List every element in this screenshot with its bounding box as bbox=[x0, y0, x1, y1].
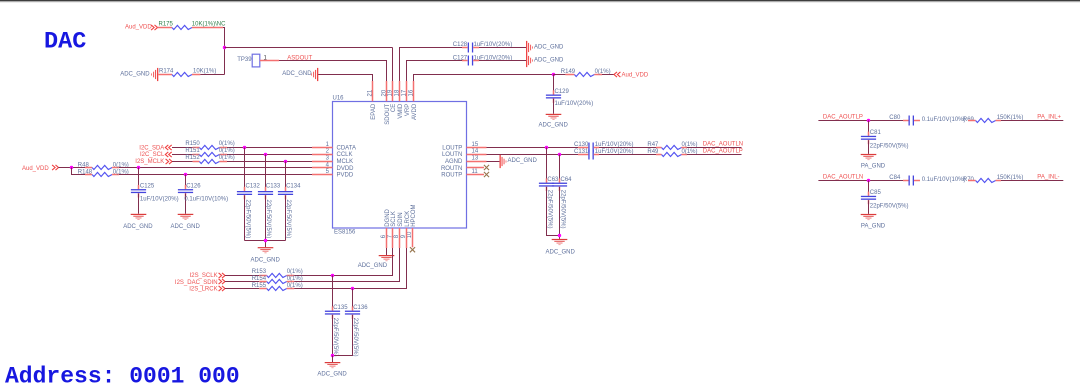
capacitor C80 bbox=[889, 115, 965, 126]
wire pin 6 DGND to ground bbox=[386, 248, 388, 255]
wire R148 to pin 5 bbox=[119, 174, 312, 176]
resistor R49 bbox=[599, 149, 698, 157]
svg-text:C129: C129 bbox=[555, 89, 570, 95]
svg-text:22pF/50V(5%): 22pF/50V(5%) bbox=[546, 190, 552, 229]
wire R48 to pin 4 bbox=[119, 167, 312, 169]
node C135 junction bbox=[331, 274, 334, 277]
ground ADC_GND (C127) bbox=[526, 54, 533, 67]
wire C128 to ground bbox=[479, 47, 526, 49]
svg-text:1uF/10V(20%): 1uF/10V(20%) bbox=[140, 196, 179, 202]
svg-text:R154: R154 bbox=[252, 276, 267, 282]
svg-text:ROUTP: ROUTP bbox=[441, 173, 462, 179]
node AVDD junction bbox=[552, 73, 555, 76]
capacitor C128 bbox=[453, 42, 512, 52]
node C125 junction bbox=[137, 166, 140, 169]
svg-text:C128: C128 bbox=[453, 42, 468, 48]
wire AGND row bbox=[487, 161, 500, 163]
svg-text:C132: C132 bbox=[246, 183, 261, 189]
svg-text:ADC_GND: ADC_GND bbox=[317, 371, 347, 377]
pin names right bbox=[441, 145, 463, 178]
svg-text:0(1%): 0(1%) bbox=[287, 269, 303, 275]
svg-text:22pF/50V(5%): 22pF/50V(5%) bbox=[870, 144, 909, 150]
svg-text:DGND: DGND bbox=[385, 208, 391, 226]
svg-text:22pF/50V(5%): 22pF/50V(5%) bbox=[285, 200, 291, 239]
ground PA_GND (C85) bbox=[861, 214, 877, 220]
svg-text:AVDD: AVDD bbox=[412, 103, 418, 120]
resistor R155 bbox=[225, 283, 303, 290]
svg-text:TP39: TP39 bbox=[237, 57, 252, 63]
svg-text:I2S_SCLK: I2S_SCLK bbox=[190, 273, 218, 279]
node C133 junction bbox=[264, 153, 267, 156]
svg-text:AGND: AGND bbox=[445, 159, 463, 165]
svg-text:R174: R174 bbox=[159, 68, 174, 74]
node C135/C136 join bbox=[331, 354, 334, 357]
node C126 junction bbox=[184, 173, 187, 176]
wire R149 to Aud_VDD bbox=[554, 74, 615, 76]
pin numbers right bbox=[472, 142, 479, 175]
svg-text:ADC_GND: ADC_GND bbox=[358, 263, 388, 269]
svg-text:22pF/50V(5%): 22pF/50V(5%) bbox=[244, 200, 250, 239]
node C63/C64 join bbox=[558, 234, 561, 237]
svg-text:PVDD: PVDD bbox=[337, 173, 354, 179]
wire R154 to pin 8 bbox=[294, 248, 399, 282]
wire C127 to ground bbox=[479, 60, 526, 62]
wire R150 to pin 1 bbox=[227, 147, 312, 149]
node common junction bbox=[264, 239, 267, 242]
svg-text:1uF/10V(20%): 1uF/10V(20%) bbox=[595, 149, 634, 155]
svg-text:CCLK: CCLK bbox=[337, 152, 353, 158]
ground ADC_GND (C132-134) bbox=[258, 247, 274, 253]
svg-text:ADC_GND: ADC_GND bbox=[251, 258, 281, 264]
svg-text:PA_INL-: PA_INL- bbox=[1037, 175, 1059, 181]
capacitor C126 bbox=[178, 175, 228, 214]
svg-text:0(1%): 0(1%) bbox=[219, 155, 235, 161]
ground ADC_GND (DGND) bbox=[379, 255, 395, 261]
wire TP39 pin 1 stub bbox=[260, 60, 279, 62]
pin names left bbox=[337, 145, 356, 178]
svg-text:21: 21 bbox=[368, 89, 374, 96]
svg-text:R152: R152 bbox=[185, 155, 200, 161]
wire to net DAC_AOUTLN bbox=[687, 147, 742, 149]
wire R155 to pin 9 bbox=[294, 248, 406, 289]
pin stubs right bbox=[467, 148, 487, 175]
wire R174 to vertical bbox=[200, 74, 224, 76]
svg-text:U16: U16 bbox=[333, 96, 345, 102]
capacitor C63 bbox=[539, 148, 560, 236]
svg-text:R48: R48 bbox=[78, 162, 90, 168]
wire EPAD ground to pin 21 bbox=[318, 75, 372, 82]
svg-text:Aud_VDD: Aud_VDD bbox=[125, 25, 152, 31]
svg-text:C131: C131 bbox=[574, 149, 589, 155]
ground ADC_GND (AGND) bbox=[500, 155, 507, 168]
no-connect X pin 10 HPCOM bbox=[410, 247, 415, 252]
ground ADC_GND (C63/C64) bbox=[552, 239, 568, 245]
svg-text:C127: C127 bbox=[453, 55, 468, 61]
svg-text:0(1%): 0(1%) bbox=[219, 141, 235, 147]
svg-text:R175: R175 bbox=[159, 21, 174, 27]
capacitor C136 bbox=[333, 289, 369, 357]
wire C132-C134 common bbox=[245, 241, 286, 248]
wire to PA_INL+ bbox=[1001, 120, 1063, 122]
svg-text:R150: R150 bbox=[185, 141, 200, 147]
svg-text:DVDD: DVDD bbox=[337, 166, 355, 172]
svg-text:DAC_AOUTLN: DAC_AOUTLN bbox=[703, 142, 743, 148]
svg-text:0.1uF/10V(10%): 0.1uF/10V(10%) bbox=[184, 196, 228, 202]
svg-text:I2C_SDA: I2C_SDA bbox=[139, 145, 164, 151]
svg-text:VRP: VRP bbox=[405, 104, 411, 116]
svg-text:C80: C80 bbox=[889, 115, 901, 121]
svg-text:0(1%): 0(1%) bbox=[219, 148, 235, 154]
node C85 junction bbox=[867, 179, 870, 182]
capacitor C129 bbox=[546, 75, 593, 114]
svg-text:ADC_GND: ADC_GND bbox=[534, 58, 564, 64]
wire DAC_AOUTLN row bbox=[818, 180, 903, 182]
pin names bottom bbox=[385, 204, 417, 226]
capacitor C125 bbox=[131, 168, 179, 214]
svg-text:VMID: VMID bbox=[398, 103, 404, 119]
svg-text:ADC_GND: ADC_GND bbox=[171, 224, 201, 230]
wire pin 16 AVDD row bbox=[414, 75, 554, 82]
svg-text:DAC_AOUTLN: DAC_AOUTLN bbox=[823, 175, 863, 181]
resistor R48 bbox=[78, 162, 129, 169]
resistor R150 bbox=[172, 141, 235, 149]
svg-text:LOUTP: LOUTP bbox=[442, 145, 462, 151]
ground ADC_GND (C128) bbox=[526, 41, 533, 54]
capacitor C135 bbox=[325, 276, 348, 357]
svg-text:19: 19 bbox=[388, 89, 394, 96]
ground PA_GND (C81) bbox=[861, 154, 877, 160]
wire join to ground bbox=[332, 356, 334, 363]
svg-text:16: 16 bbox=[409, 89, 415, 96]
ground ADC_GND (C125) bbox=[131, 214, 147, 220]
svg-text:CE: CE bbox=[391, 104, 397, 112]
svg-text:22pF/50V(5%): 22pF/50V(5%) bbox=[265, 200, 271, 239]
resistor R47 bbox=[599, 142, 698, 150]
svg-text:C126: C126 bbox=[186, 183, 201, 189]
node Aud_VDD split bbox=[70, 166, 73, 169]
capacitor C131 bbox=[574, 149, 633, 160]
svg-text:22pF/50V(5%): 22pF/50V(5%) bbox=[559, 190, 565, 229]
capacitor C81 bbox=[861, 121, 909, 154]
resistor R153 bbox=[225, 269, 303, 278]
svg-text:R151: R151 bbox=[185, 148, 200, 154]
capacitor C130 bbox=[574, 142, 633, 153]
wire LOUTN row bbox=[487, 154, 579, 156]
pin numbers bottom bbox=[381, 231, 413, 238]
svg-text:22pF/50V(5%): 22pF/50V(5%) bbox=[870, 204, 909, 210]
pin numbers top bbox=[368, 89, 415, 96]
svg-text:C135: C135 bbox=[333, 305, 348, 311]
svg-text:ADC_GND: ADC_GND bbox=[508, 158, 538, 164]
svg-text:10K(1%)\NC: 10K(1%)\NC bbox=[192, 21, 226, 27]
svg-text:SDIN: SDIN bbox=[398, 212, 404, 226]
capacitor C84 bbox=[889, 175, 965, 186]
test point TP39 bbox=[237, 54, 267, 67]
ground ADC_GND (C135/C136) bbox=[325, 362, 341, 368]
node C64 junction bbox=[558, 153, 561, 156]
svg-text:22pF/50V(5%): 22pF/50V(5%) bbox=[332, 318, 338, 357]
capacitor C134 bbox=[278, 162, 301, 241]
svg-text:C63: C63 bbox=[547, 177, 559, 183]
svg-text:22pF/50V(5%): 22pF/50V(5%) bbox=[352, 318, 358, 357]
resistor R152 bbox=[172, 155, 235, 164]
svg-text:LRCK: LRCK bbox=[405, 211, 411, 227]
svg-text:DAC_AOUTLP: DAC_AOUTLP bbox=[703, 148, 743, 154]
svg-text:C136: C136 bbox=[353, 305, 368, 311]
capacitor C64 bbox=[552, 155, 572, 239]
pin stubs left bbox=[312, 148, 333, 175]
ground ADC_GND (C129) bbox=[546, 114, 562, 120]
resistor R69 bbox=[963, 115, 1023, 123]
wire R151 to pin 2 bbox=[227, 154, 312, 156]
svg-text:HPCOM: HPCOM bbox=[411, 204, 417, 226]
svg-text:0.1uF/10V(10%): 0.1uF/10V(10%) bbox=[922, 117, 966, 123]
no-connect X pin 11 ROUTP bbox=[484, 172, 489, 177]
svg-text:CDATA: CDATA bbox=[337, 145, 356, 151]
top border bar bbox=[0, 0, 1080, 1]
svg-text:PA_GND: PA_GND bbox=[861, 223, 886, 229]
resistor R175 bbox=[158, 21, 227, 29]
ground ADC_GND (C126) bbox=[178, 214, 194, 220]
resistor R149 bbox=[561, 69, 611, 77]
wire ASDOUT to pin 20 bbox=[279, 61, 387, 82]
node C63 junction bbox=[545, 146, 548, 149]
pin stubs top bbox=[373, 81, 414, 101]
svg-text:C64: C64 bbox=[561, 177, 573, 183]
capacitor C85 bbox=[861, 181, 909, 214]
wire pin 18 to C128 bbox=[400, 48, 463, 82]
svg-text:ADC_GND: ADC_GND bbox=[282, 71, 312, 77]
svg-text:18: 18 bbox=[395, 89, 401, 96]
svg-text:1uF/10V(20%): 1uF/10V(20%) bbox=[555, 101, 594, 107]
svg-text:13: 13 bbox=[472, 156, 479, 162]
wire R175 to corner and down bbox=[223, 28, 225, 75]
svg-text:C84: C84 bbox=[889, 175, 901, 181]
chip U16 ES8156 bbox=[333, 96, 467, 236]
svg-text:I2S_MCLK: I2S_MCLK bbox=[135, 159, 164, 165]
svg-text:I2C_SCL: I2C_SCL bbox=[140, 152, 165, 158]
svg-text:EPAD: EPAD bbox=[371, 103, 377, 120]
pin numbers left bbox=[326, 142, 330, 175]
node C136 junction bbox=[351, 287, 354, 290]
svg-text:PA_INL+: PA_INL+ bbox=[1037, 115, 1061, 121]
svg-text:ES8156: ES8156 bbox=[334, 230, 356, 236]
svg-text:C134: C134 bbox=[286, 183, 301, 189]
svg-text:R49: R49 bbox=[647, 149, 659, 155]
wire to net DAC_AOUTLP bbox=[687, 154, 742, 156]
capacitor C132 bbox=[237, 148, 261, 241]
svg-text:ADC_GND: ADC_GND bbox=[546, 250, 576, 256]
wire to PA_INL- bbox=[1001, 180, 1063, 182]
svg-text:0.1uF/10V(10%): 0.1uF/10V(10%) bbox=[922, 177, 966, 183]
svg-text:MCLK: MCLK bbox=[337, 159, 354, 165]
wire junction to pin19 CE bbox=[225, 47, 393, 49]
pin stubs bottom bbox=[387, 228, 413, 248]
pin names top bbox=[371, 103, 418, 125]
resistor R154 bbox=[225, 276, 303, 283]
node junction CE branch bbox=[223, 46, 226, 49]
svg-text:PA_GND: PA_GND bbox=[861, 163, 886, 169]
svg-text:C85: C85 bbox=[870, 190, 882, 196]
svg-text:R153: R153 bbox=[252, 269, 267, 275]
wire pin 17 to C127 bbox=[407, 61, 463, 82]
svg-text:ADC_GND: ADC_GND bbox=[539, 122, 569, 128]
svg-text:I2S_DAC_SDIN: I2S_DAC_SDIN bbox=[175, 280, 218, 286]
svg-text:DAC: DAC bbox=[44, 29, 86, 56]
capacitor C127 bbox=[453, 55, 512, 65]
wire R152 to pin 3 bbox=[227, 161, 312, 163]
svg-text:Address: 0001 000: Address: 0001 000 bbox=[5, 364, 240, 387]
no-connect X pin 12 ROUTN bbox=[484, 165, 489, 170]
wire DAC_AOUTLP row bbox=[818, 120, 903, 122]
wire LOUTP row bbox=[487, 147, 579, 149]
svg-text:ADC_GND: ADC_GND bbox=[534, 45, 564, 51]
svg-text:C125: C125 bbox=[140, 183, 155, 189]
resistor R70 bbox=[963, 175, 1023, 183]
resistor R174 bbox=[159, 68, 217, 76]
resistor R148 bbox=[78, 169, 129, 176]
node C134 junction bbox=[284, 160, 287, 163]
svg-text:LOUTN: LOUTN bbox=[442, 152, 462, 158]
wire R153 to pin 7 bbox=[294, 248, 392, 276]
wire pin 19 vertical bbox=[392, 48, 394, 82]
svg-text:C133: C133 bbox=[266, 183, 281, 189]
svg-text:10K(1%): 10K(1%) bbox=[193, 68, 216, 74]
svg-text:ADC_GND: ADC_GND bbox=[120, 71, 150, 77]
resistor R151 bbox=[172, 148, 235, 157]
svg-text:R148: R148 bbox=[78, 169, 93, 175]
wire split down to R148 row bbox=[72, 168, 86, 175]
svg-text:Aud_VDD: Aud_VDD bbox=[22, 166, 49, 172]
svg-text:ADC_GND: ADC_GND bbox=[123, 224, 153, 230]
node C81 junction bbox=[867, 119, 870, 122]
svg-text:ROUTN: ROUTN bbox=[441, 166, 462, 172]
svg-text:R47: R47 bbox=[647, 142, 659, 148]
capacitor C133 bbox=[258, 155, 281, 241]
svg-text:DAC_AOUTLP: DAC_AOUTLP bbox=[823, 115, 863, 121]
svg-text:I2S_LRCK: I2S_LRCK bbox=[189, 287, 217, 293]
svg-text:Aud_VDD: Aud_VDD bbox=[622, 72, 649, 78]
wire Aud_VDD to junction bbox=[59, 167, 86, 169]
svg-text:0(1%): 0(1%) bbox=[682, 149, 698, 155]
svg-text:R155: R155 bbox=[252, 283, 267, 289]
svg-text:C130: C130 bbox=[574, 142, 589, 148]
svg-text:17: 17 bbox=[402, 89, 408, 96]
svg-text:SCLK: SCLK bbox=[391, 211, 397, 227]
svg-text:C81: C81 bbox=[870, 130, 882, 136]
node C132 junction bbox=[243, 146, 246, 149]
